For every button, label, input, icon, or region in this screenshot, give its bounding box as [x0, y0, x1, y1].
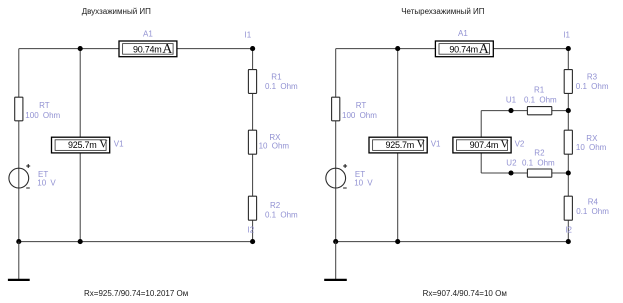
- wire V2 branch lower vertical: [480, 153, 482, 173]
- wire V2 branch upper vertical: [480, 111, 482, 138]
- resistor R4 right (0.1 Ohm): [564, 196, 609, 220]
- svg-text:Четырехзажимный ИП: Четырехзажимный ИП: [401, 7, 485, 16]
- svg-text:907.4m: 907.4m: [470, 140, 499, 150]
- ammeter A1 right (90.74m A): [435, 29, 493, 57]
- wire left vertical left circuit: [18, 49, 20, 242]
- junction top middle right circuit: [395, 46, 400, 51]
- node U1: [506, 95, 517, 113]
- svg-text:90.74m: 90.74m: [449, 44, 478, 54]
- svg-text:R3: R3: [587, 73, 598, 82]
- svg-text:RX: RX: [586, 134, 598, 143]
- junction bottom middle left circuit: [78, 239, 83, 244]
- svg-text:V2: V2: [515, 140, 525, 149]
- junction top middle left circuit: [78, 46, 83, 51]
- svg-text:V: V: [500, 139, 509, 151]
- battery ET (10 V): [9, 164, 57, 188]
- svg-text:R4: R4: [588, 198, 599, 207]
- svg-text:U2: U2: [506, 158, 517, 167]
- svg-text:10 V: 10 V: [354, 178, 373, 187]
- wire bottom left circuit: [19, 241, 253, 243]
- svg-text:I1: I1: [245, 30, 252, 39]
- svg-text:V1: V1: [114, 140, 124, 149]
- resistor R1 left (0.1 Ohm): [248, 70, 298, 94]
- svg-text:R2: R2: [534, 149, 545, 158]
- resistor RT right (100 Ohm): [332, 97, 378, 121]
- resistor RX right (10 Ohm): [564, 130, 606, 154]
- svg-text:100 Ohm: 100 Ohm: [25, 111, 60, 120]
- wire top left circuit: [19, 48, 253, 50]
- svg-text:V1: V1: [431, 140, 441, 149]
- svg-text:RT: RT: [39, 101, 50, 110]
- resistor R2 right horizontal (0.1 Ohm): [522, 149, 555, 178]
- node I2 left: [248, 225, 256, 244]
- ground left circuit: [8, 242, 30, 280]
- svg-text:0.1 Ohm: 0.1 Ohm: [265, 82, 298, 91]
- svg-text:I1: I1: [563, 30, 570, 39]
- svg-text:R2: R2: [270, 201, 281, 210]
- svg-text:I2: I2: [248, 225, 255, 234]
- svg-text:10 Ohm: 10 Ohm: [259, 142, 290, 151]
- node I1 left: [245, 30, 256, 51]
- svg-text:925.7m: 925.7m: [68, 140, 97, 150]
- voltmeter V1 right (925.7m V): [369, 137, 441, 153]
- resistor RX left (10 Ohm): [248, 130, 289, 154]
- wire right vertical right circuit: [567, 49, 569, 242]
- junction bottom left (ground node) left circuit: [16, 239, 21, 244]
- svg-text:V: V: [417, 139, 426, 151]
- resistor R3 right (0.1 Ohm): [564, 70, 609, 94]
- wire right vertical left circuit: [252, 49, 254, 242]
- resistor R2 left (0.1 Ohm): [248, 196, 298, 220]
- wire left vertical right circuit: [335, 49, 337, 242]
- battery ET right (10 V): [326, 164, 374, 188]
- wire U2 tap horizontal: [481, 172, 568, 174]
- svg-text:Rx=925.7/90.74=10.2017 Ом: Rx=925.7/90.74=10.2017 Ом: [84, 289, 188, 298]
- svg-text:Двухзажимный ИП: Двухзажимный ИП: [82, 7, 151, 16]
- svg-text:925.7m: 925.7m: [385, 140, 414, 150]
- junction bottom left (ground node) right circuit: [333, 239, 338, 244]
- svg-text:I2: I2: [565, 225, 572, 234]
- resistor RT (100 Ohm): [15, 97, 61, 121]
- node I1 right: [563, 30, 571, 51]
- resistor R1 right horizontal (0.1 Ohm): [524, 86, 557, 115]
- svg-text:RT: RT: [356, 101, 367, 110]
- svg-text:A1: A1: [143, 29, 153, 38]
- svg-text:Rx=907.4/90.74=10 Ом: Rx=907.4/90.74=10 Ом: [423, 289, 507, 298]
- svg-text:0.1 Ohm: 0.1 Ohm: [265, 210, 298, 219]
- svg-text:0.1 Ohm: 0.1 Ohm: [522, 158, 555, 167]
- wire U1 tap horizontal: [481, 110, 568, 112]
- junction R1 to right wire: [566, 108, 571, 113]
- svg-text:90.74m: 90.74m: [133, 44, 162, 54]
- svg-text:R1: R1: [534, 86, 545, 95]
- wire top right circuit: [336, 48, 569, 50]
- wire middle vertical (V1 branch) right circuit: [397, 49, 399, 242]
- svg-text:10 V: 10 V: [37, 178, 56, 187]
- svg-text:A: A: [162, 42, 173, 57]
- ammeter A1 left (90.74m A): [119, 29, 177, 57]
- wire middle vertical (V1 branch) left circuit: [79, 49, 81, 242]
- voltmeter V1 left (925.7m V): [52, 137, 125, 153]
- svg-text:0.1 Ohm: 0.1 Ohm: [576, 82, 609, 91]
- svg-text:0.1 Ohm: 0.1 Ohm: [576, 207, 609, 216]
- voltmeter V2 right (907.4m V): [453, 137, 525, 153]
- svg-text:A: A: [479, 42, 490, 57]
- svg-text:A1: A1: [458, 29, 468, 38]
- node U2: [506, 158, 517, 175]
- node I2 right: [565, 225, 572, 244]
- svg-text:U1: U1: [506, 95, 517, 104]
- junction R2 to right wire: [566, 170, 571, 175]
- junction bottom middle right circuit: [395, 239, 400, 244]
- wire bottom right circuit: [336, 241, 569, 243]
- svg-text:R1: R1: [271, 72, 282, 81]
- svg-text:10 Ohm: 10 Ohm: [576, 143, 607, 152]
- svg-text:100 Ohm: 100 Ohm: [342, 111, 377, 120]
- svg-text:V: V: [99, 139, 108, 151]
- svg-text:0.1 Ohm: 0.1 Ohm: [524, 95, 557, 104]
- ground right circuit: [324, 242, 347, 280]
